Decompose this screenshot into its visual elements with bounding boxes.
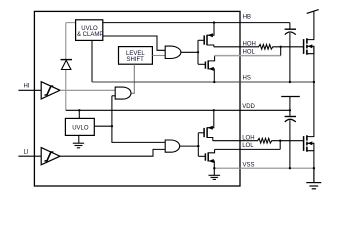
svg-text:SHIFT: SHIFT bbox=[127, 57, 145, 63]
svg-text:UVLO: UVLO bbox=[72, 125, 89, 131]
node UVLO net junction bbox=[111, 125, 113, 127]
node HOH-HOL junction bbox=[280, 46, 282, 48]
transistor M2 (external low-side FET) bbox=[304, 82, 314, 168]
wire LOL bbox=[215, 148, 281, 150]
svg-text:HOL: HOL bbox=[243, 49, 256, 55]
svg-text:& CLAMP: & CLAMP bbox=[77, 32, 103, 38]
wire UVLO&CLAMP to AND1 bbox=[103, 36, 165, 50]
wire HOL bbox=[215, 55, 281, 57]
AND gate A3 (HI path) bbox=[115, 87, 131, 99]
terminal HV rail tick bbox=[307, 10, 319, 14]
wire UVLO bottom stub bbox=[78, 135, 80, 143]
node HS junctions bbox=[213, 81, 215, 83]
wire U1 output bbox=[60, 89, 115, 91]
wire top driver gate line bbox=[197, 40, 199, 64]
node HB-driver junction bbox=[213, 21, 215, 23]
IC boundary bbox=[34, 11, 240, 186]
ground G1 (UVLO) bbox=[73, 143, 84, 148]
wire VDD rail bbox=[66, 109, 290, 111]
svg-text:LOL: LOL bbox=[242, 143, 254, 149]
diode D1 (bootstrap) bbox=[61, 60, 73, 70]
node VDD-cap junction bbox=[289, 109, 291, 111]
wire UVLO top stub bbox=[78, 110, 80, 118]
ground G2 (driver VSS) bbox=[209, 168, 221, 179]
wire VSS rail bbox=[214, 167, 314, 169]
svg-text:LI: LI bbox=[24, 149, 29, 155]
wire HS rail bbox=[92, 81, 314, 83]
svg-text:VDD: VDD bbox=[242, 104, 255, 110]
block LEVEL SHIFT bbox=[119, 47, 153, 65]
node VDD-driver junction bbox=[213, 109, 215, 111]
node VSS junctions bbox=[213, 167, 215, 169]
transistor Q1 (high-side PMOS driver) bbox=[198, 23, 214, 47]
wire UVLO&CLAMP to HS bbox=[91, 40, 93, 82]
wire HB rail bbox=[103, 22, 290, 24]
svg-text:VSS: VSS bbox=[243, 163, 255, 169]
svg-text:HS: HS bbox=[243, 76, 251, 82]
AND gate A2 (LI path) bbox=[165, 140, 180, 152]
wire U2 output to AND2 bbox=[60, 149, 165, 156]
node LOH-LOL junction bbox=[279, 140, 281, 142]
svg-text:HI: HI bbox=[24, 84, 30, 90]
wire LEVEL SHIFT bottom to AND3 out bbox=[131, 64, 134, 93]
wire HI input bbox=[18, 89, 41, 91]
transistor Q4 (low-side NMOS driver) bbox=[198, 149, 214, 168]
ground G3 (external FET source) bbox=[306, 168, 321, 189]
transistor Q2 (high-side NMOS driver) bbox=[198, 56, 215, 82]
svg-text:HB: HB bbox=[243, 14, 251, 20]
svg-text:LOH: LOH bbox=[242, 135, 254, 141]
svg-text:LEVEL: LEVEL bbox=[126, 51, 145, 57]
transistor Q3 (low-side PMOS driver) bbox=[198, 110, 214, 140]
wire A2 output to gate line bbox=[180, 145, 199, 147]
block UVLO & CLAMP bbox=[76, 20, 103, 41]
wire LEVEL SHIFT output bbox=[152, 55, 165, 57]
buffer U2 (LI schmitt input) bbox=[41, 148, 60, 165]
wire LI input bbox=[18, 155, 41, 157]
wire A3 lower input bbox=[112, 95, 115, 97]
wire bottom driver gate line bbox=[197, 133, 199, 157]
block UVLO bbox=[65, 118, 94, 135]
wire A1 output to gate line bbox=[181, 51, 198, 53]
wire HOH rail with resistor R1 bbox=[214, 44, 304, 49]
wire HB to bootstrap cap bbox=[289, 23, 291, 30]
capacitor C2 (VDD bypass) bbox=[285, 117, 296, 169]
buffer U1 (HI schmitt input) bbox=[41, 82, 60, 99]
transistor M1 (external high-side FET) bbox=[304, 11, 314, 82]
svg-text:HOH: HOH bbox=[243, 42, 256, 48]
terminal VDD supply bar bbox=[281, 96, 300, 98]
wire bootstrap diode branch bbox=[66, 23, 76, 60]
capacitor C1 (bootstrap) bbox=[285, 29, 296, 82]
AND gate A1 (high side) bbox=[165, 46, 181, 58]
wire UVLO output net bbox=[94, 96, 165, 143]
node VDD-UVLO junction bbox=[78, 109, 80, 111]
wire LOH rail with resistor R2 bbox=[213, 138, 304, 143]
